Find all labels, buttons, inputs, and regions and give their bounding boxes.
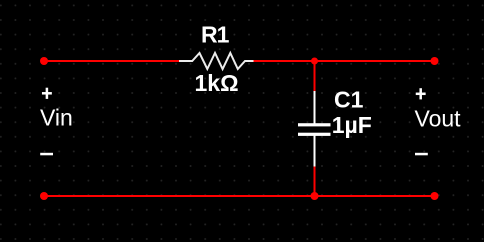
node Vout top terminal xyxy=(431,57,439,65)
node Vin bottom terminal xyxy=(40,192,48,200)
Vout plus sign xyxy=(416,88,426,99)
wire bottom rail xyxy=(44,195,435,197)
svg-text:R1: R1 xyxy=(201,22,230,48)
Vin minus sign xyxy=(40,153,53,156)
wire capacitor bottom segment xyxy=(314,166,316,196)
svg-text:1µF: 1µF xyxy=(332,112,372,138)
svg-text:1kΩ: 1kΩ xyxy=(195,70,239,96)
junction top node xyxy=(311,58,318,65)
wire top rail left segment xyxy=(44,60,180,62)
wire top rail right segment xyxy=(253,60,435,62)
junction bottom node xyxy=(311,192,319,200)
capacitor C1 xyxy=(298,91,331,167)
Vout minus sign xyxy=(415,153,428,156)
svg-text:Vout: Vout xyxy=(415,105,462,131)
svg-text:Vin: Vin xyxy=(40,105,73,131)
svg-text:C1: C1 xyxy=(334,87,364,113)
node Vout bottom terminal xyxy=(431,192,439,200)
resistor R1 xyxy=(179,53,254,69)
Vin plus sign xyxy=(42,88,52,99)
node Vin top terminal xyxy=(40,57,48,65)
wire capacitor top segment xyxy=(314,61,316,92)
